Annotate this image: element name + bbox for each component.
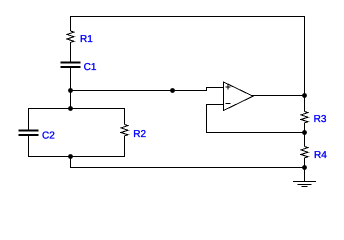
capacitor C1 xyxy=(61,62,81,68)
label R2 xyxy=(133,129,146,140)
wire tank right upper xyxy=(124,108,126,125)
node B junction dot (mid wire) xyxy=(170,88,175,93)
label R1 xyxy=(80,34,93,45)
capacitor C2 xyxy=(19,130,39,137)
wire top rail xyxy=(70,16,305,18)
wire right rail top xyxy=(304,16,306,112)
svg-text:C2: C2 xyxy=(42,130,55,141)
node F junction dot (R3/R4 feedback tap) xyxy=(302,130,307,135)
node A junction dot (C1 bottom) xyxy=(68,88,73,93)
wire R4 to node G xyxy=(304,158,306,169)
wire tank bottom rail xyxy=(29,156,126,158)
resistor R4 xyxy=(301,147,308,158)
wire top-left vertical to R1 xyxy=(70,16,72,31)
svg-text:R3: R3 xyxy=(314,114,327,125)
wire tank left lower xyxy=(28,136,30,157)
wire R3 to node F xyxy=(304,123,306,147)
wire op-amp inverting input feedback xyxy=(207,104,306,133)
wire node A down to tank top xyxy=(70,90,72,108)
node C junction dot (tank top) xyxy=(68,106,73,111)
label R3 xyxy=(314,114,327,125)
wire node D drop to bottom rail xyxy=(70,157,72,169)
resistor R3 xyxy=(301,112,308,123)
svg-text:R2: R2 xyxy=(133,129,146,140)
label C2 xyxy=(42,130,55,141)
label C1 xyxy=(84,62,97,73)
wire R1 to C1 xyxy=(70,42,72,62)
label R4 xyxy=(314,150,327,161)
wire tank right lower xyxy=(124,136,126,158)
node G junction dot (R4 bottom / ground) xyxy=(302,165,307,170)
svg-text:R4: R4 xyxy=(314,150,327,161)
wire tank left upper xyxy=(28,108,30,130)
resistor R1 xyxy=(67,31,74,42)
wire node A to op-amp noninverting input xyxy=(71,87,225,91)
resistor R2 xyxy=(121,125,128,136)
wire bottom rail to ground xyxy=(71,167,306,169)
node D junction dot (tank bottom) xyxy=(68,154,73,159)
node E junction dot (output / right rail) xyxy=(302,93,307,98)
wire op-amp output xyxy=(252,95,305,97)
wire tank top rail xyxy=(29,108,126,110)
svg-text:R1: R1 xyxy=(80,34,93,45)
ground xyxy=(293,168,316,187)
svg-text:C1: C1 xyxy=(84,62,97,73)
wire C1 to node A xyxy=(70,68,72,90)
op-amp U1 xyxy=(224,82,254,111)
